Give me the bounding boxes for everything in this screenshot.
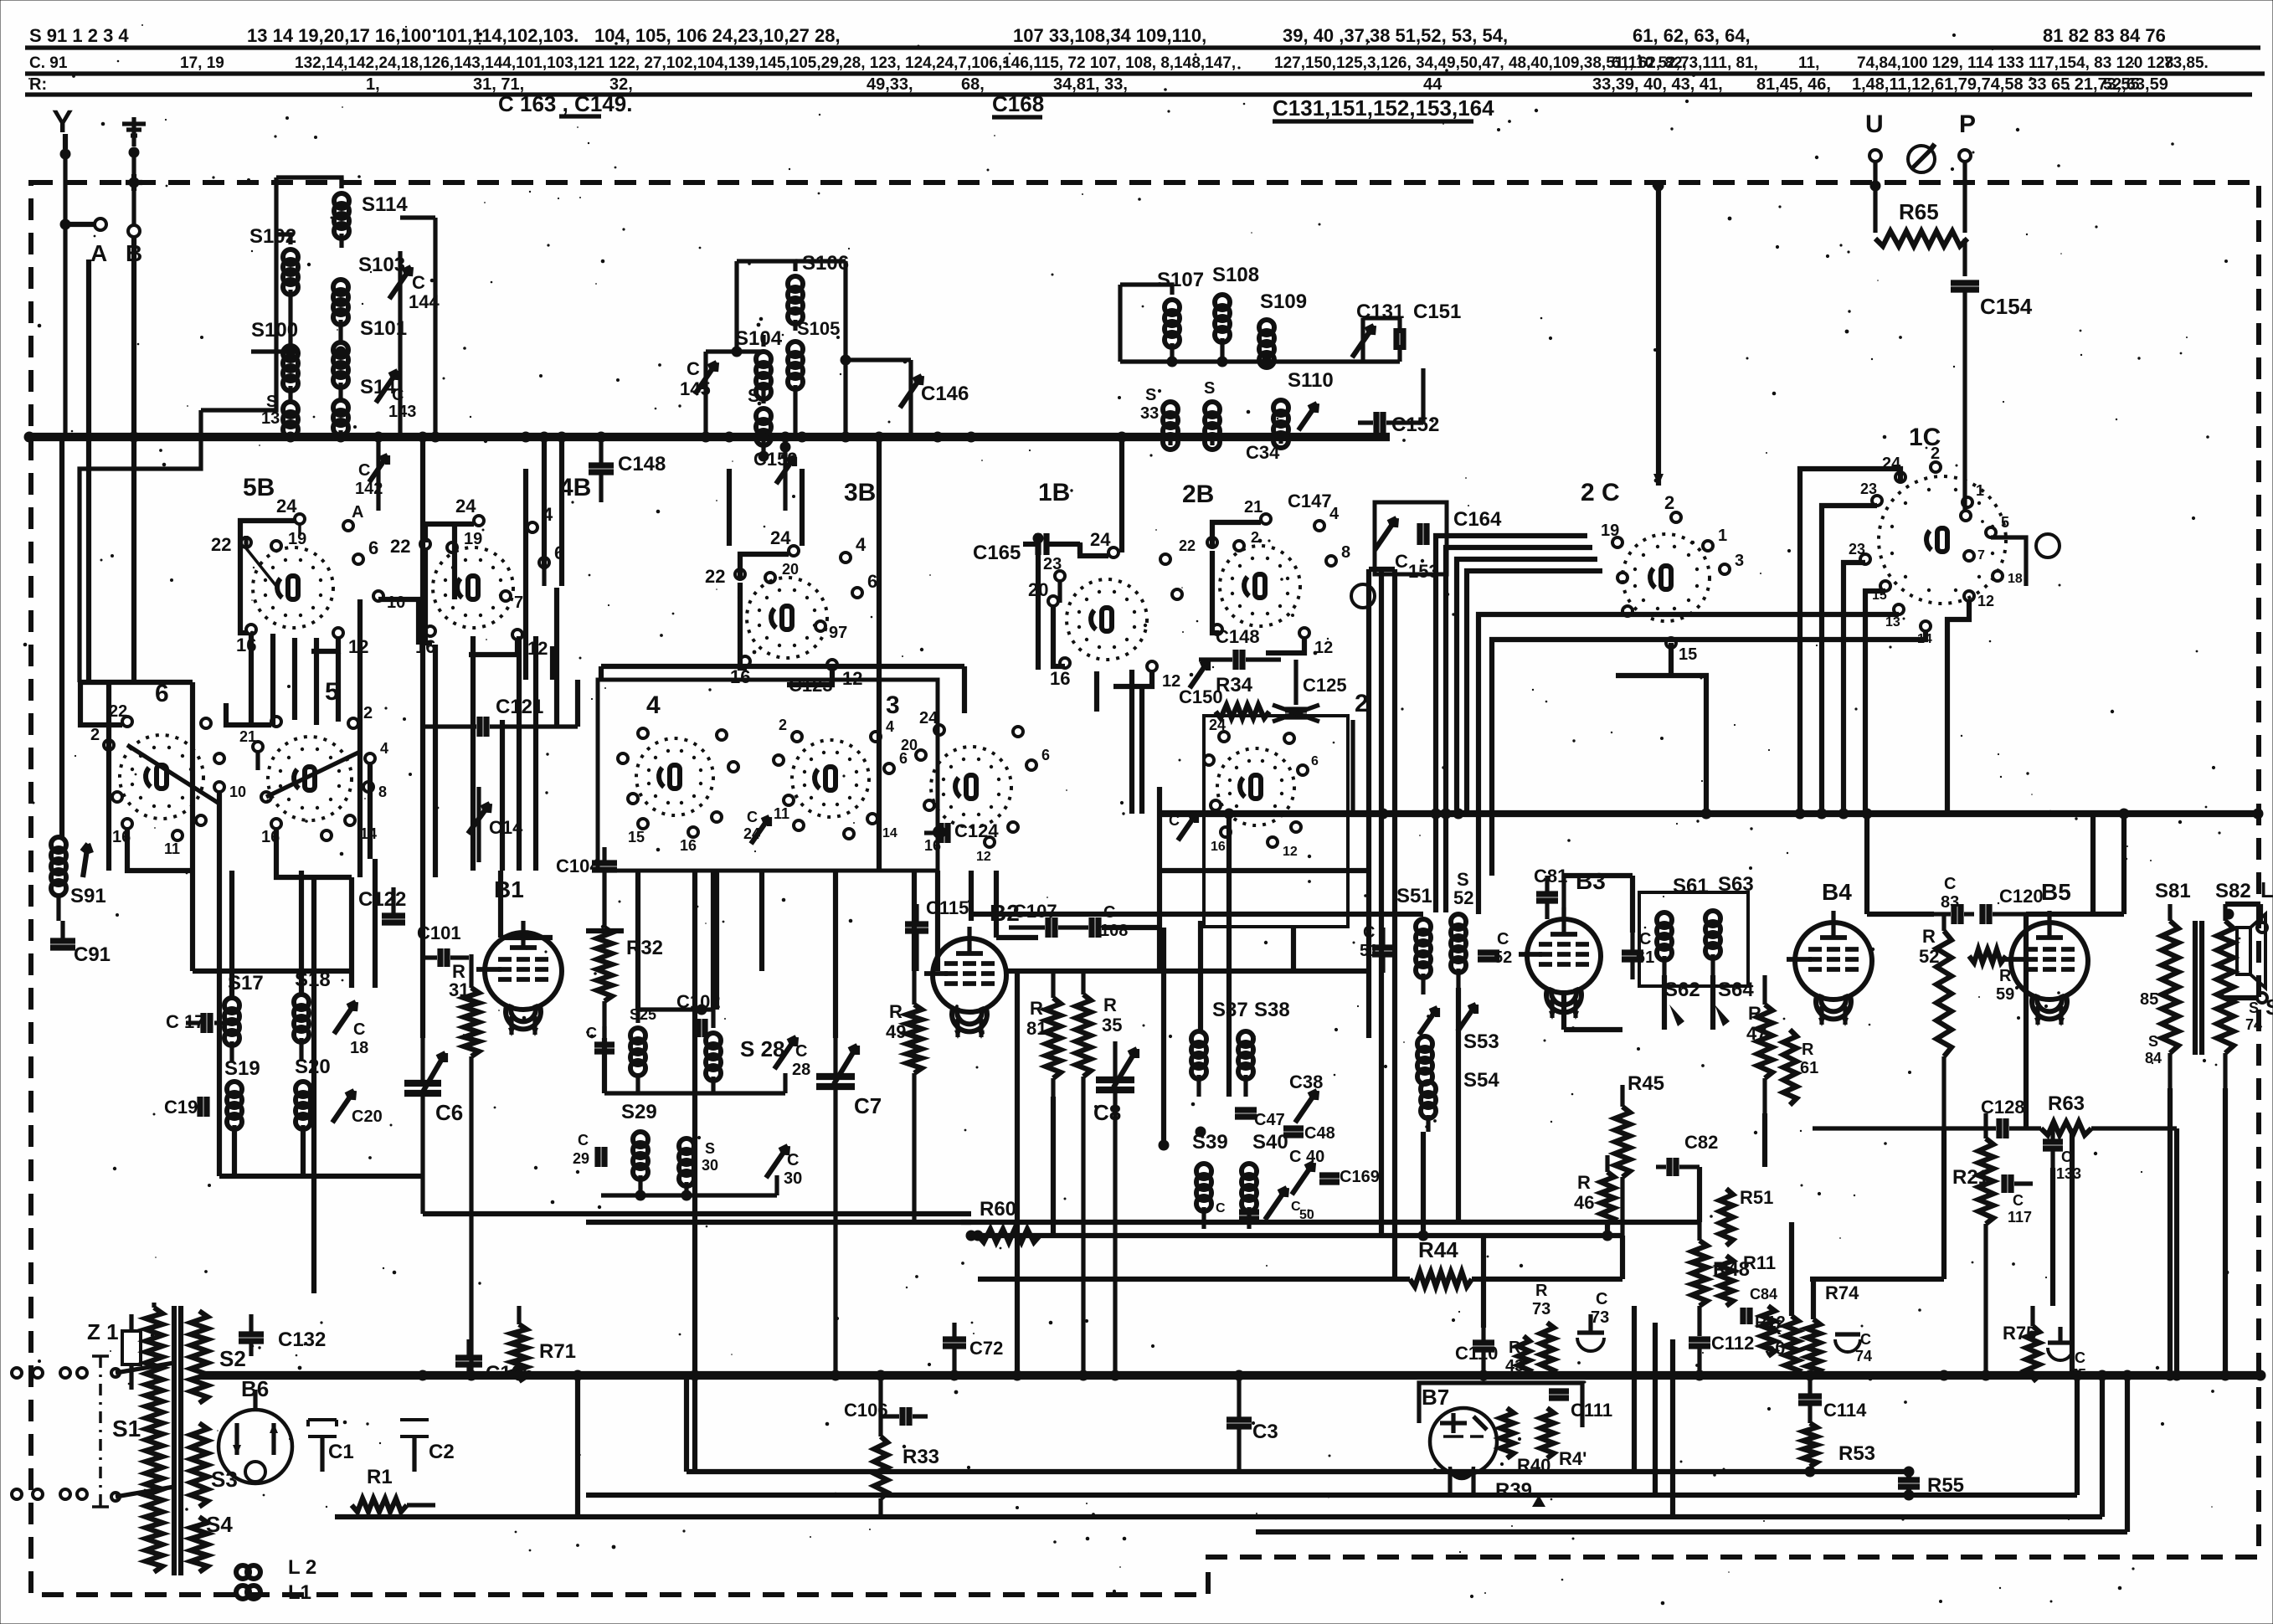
coil S39: [1192, 1131, 1228, 1229]
table rule 3: [25, 92, 2252, 96]
svg-text:R: R: [1577, 1172, 1591, 1193]
capacitor C3: [1226, 1375, 1278, 1472]
capacitor C75: [2048, 1327, 2086, 1383]
svg-text:22: 22: [109, 702, 127, 721]
svg-text:C: C: [1169, 812, 1180, 829]
resistor R45: [1615, 1072, 1664, 1236]
capacitor C49: [1216, 1201, 1259, 1219]
core arrow S62: [1669, 1005, 1684, 1026]
resistor R53: [1803, 1423, 1875, 1478]
bottom bus: [199, 1371, 2260, 1380]
capacitor C115: [905, 897, 969, 971]
svg-text:24: 24: [276, 496, 297, 516]
svg-text:R: R: [1535, 1282, 1548, 1300]
svg-text:61: 61: [1800, 1059, 1818, 1077]
svg-text:R51: R51: [1740, 1187, 1773, 1208]
right bus: [1160, 810, 2258, 817]
capacitor C133: [2043, 1122, 2081, 1182]
svg-text:24: 24: [919, 709, 939, 727]
svg-text:3: 3: [886, 691, 900, 719]
1 contacts: [901, 709, 1050, 864]
svg-text:2: 2: [1251, 529, 1259, 546]
capacitor C73: [1577, 1290, 1609, 1351]
svg-text:S1: S1: [112, 1416, 141, 1442]
svg-text:C165: C165: [973, 542, 1021, 564]
svg-text:P: P: [1959, 110, 1976, 138]
switch wafer 3B: [747, 479, 876, 658]
coil S40: [1242, 1131, 1288, 1229]
B7 shield box: [1419, 1383, 1582, 1427]
svg-text:C120: C120: [1999, 886, 2044, 907]
svg-text:C6: C6: [435, 1100, 463, 1125]
2B contacts: [1179, 498, 1350, 657]
coil S13: [261, 393, 298, 437]
transformer sec S2: [191, 1311, 246, 1403]
trimmer C143: [376, 371, 416, 421]
svg-text:S2: S2: [219, 1346, 246, 1371]
2B bracket: [1212, 522, 1304, 653]
label S74: [2245, 1000, 2262, 1033]
svg-text:33: 33: [1140, 404, 1159, 423]
svg-text:C169: C169: [1340, 1168, 1380, 1186]
svg-text:11,: 11,: [1798, 54, 1819, 72]
coil S61: [1657, 875, 1709, 975]
svg-text:21: 21: [239, 728, 256, 745]
svg-text:S: S: [1204, 379, 1215, 398]
svg-text:C47: C47: [1254, 1111, 1285, 1129]
capacitor C82: [1656, 1132, 1718, 1176]
svg-text:S81: S81: [2155, 880, 2191, 902]
switch wafer 4: [636, 691, 713, 815]
2 contacts: [1204, 717, 1319, 859]
resistor R48: [1692, 1222, 1750, 1336]
trimmer C144: [389, 251, 440, 437]
wires S28: [604, 1005, 785, 1094]
svg-text:C110: C110: [1455, 1343, 1498, 1364]
resistor R1: [352, 1466, 435, 1512]
svg-text:C132: C132: [278, 1328, 326, 1351]
svg-text:C7: C7: [854, 1093, 882, 1118]
switch wafer 4B: [433, 474, 591, 628]
1B bracket: [1053, 542, 1152, 686]
coil S26: [748, 385, 771, 445]
svg-text:16: 16: [680, 837, 697, 854]
svg-text:S19: S19: [224, 1057, 260, 1080]
resistor R35: [1076, 971, 1122, 1375]
trimmer S53 arrow: [1419, 1008, 1499, 1053]
svg-text:46: 46: [1574, 1192, 1594, 1213]
svg-text:22: 22: [1179, 537, 1196, 554]
svg-text:4: 4: [856, 534, 867, 555]
resistor R47: [1746, 975, 1772, 1113]
svg-text:39, 40 ,37,38 51,52, 53, 54,: 39, 40 ,37,38 51,52, 53, 54,: [1283, 25, 1508, 46]
svg-text:7: 7: [1977, 548, 1985, 563]
resistor R40: [1500, 1408, 1550, 1476]
1C spare hole: [2036, 534, 2060, 558]
capacitor C117: [2004, 1174, 2033, 1226]
svg-text:C122: C122: [358, 888, 406, 911]
svg-text:S114: S114: [362, 193, 408, 216]
svg-text:19: 19: [464, 530, 482, 548]
svg-text:28: 28: [792, 1061, 810, 1079]
label R39: [1495, 1479, 1545, 1507]
svg-text:23: 23: [1849, 541, 1865, 558]
coil S30: [679, 1138, 718, 1195]
svg-text:B5: B5: [2041, 879, 2071, 905]
svg-text:C: C: [578, 1132, 589, 1149]
svg-text:C154: C154: [1980, 294, 2033, 319]
resistor R51: [1720, 1187, 1773, 1246]
svg-text:R33: R33: [903, 1446, 939, 1468]
svg-text:C38: C38: [1289, 1072, 1323, 1092]
4 contacts: [618, 728, 738, 854]
4B contacts: [390, 496, 564, 659]
svg-text:20: 20: [901, 737, 918, 753]
coil S114: [276, 177, 408, 248]
svg-text:16: 16: [924, 837, 941, 854]
svg-text:1,: 1,: [366, 75, 380, 94]
svg-text:B4: B4: [1822, 879, 1852, 905]
valve B5: [2003, 879, 2088, 1026]
capacitor C110: [1455, 1328, 1498, 1375]
resistor R11: [1720, 1252, 1776, 1306]
resistor R46: [1574, 1155, 1614, 1224]
2C contacts: [1601, 492, 1744, 664]
svg-text:R: R: [889, 1001, 903, 1022]
svg-text:S 28: S 28: [740, 1036, 785, 1061]
svg-text:S: S: [2148, 1033, 2158, 1050]
svg-text:R53: R53: [1838, 1442, 1875, 1465]
svg-text:R32: R32: [626, 937, 663, 959]
coil S17: [224, 972, 264, 1061]
svg-text:C115: C115: [926, 897, 969, 918]
capacitor C153: [1395, 551, 1439, 582]
svg-text:C111: C111: [1571, 1400, 1612, 1421]
svg-text:L 2: L 2: [288, 1556, 316, 1579]
svg-text:6: 6: [1041, 747, 1050, 763]
switch wafer 2B: [1182, 481, 1300, 626]
svg-text:A: A: [352, 503, 363, 522]
resistor R74: [1807, 1282, 1859, 1375]
svg-text:15: 15: [628, 829, 645, 845]
coil S14: [333, 376, 396, 435]
capacitor C48: [1283, 1124, 1335, 1143]
label S64: [1718, 979, 1754, 1001]
transformer core: [174, 1306, 181, 1575]
svg-text:R71: R71: [539, 1340, 576, 1363]
capacitor C19: [164, 1097, 207, 1118]
trimmer C131: [1352, 301, 1404, 362]
svg-text:13 14 19,20,17 16,100 101,114,: 13 14 19,20,17 16,100 101,114,102,103.: [247, 25, 579, 46]
svg-text:R: R: [1103, 994, 1117, 1015]
svg-text:73,85.: 73,85.: [2164, 54, 2209, 72]
trimmer C24: [743, 809, 769, 844]
coil S28: [706, 1033, 785, 1081]
resistor R49: [886, 971, 922, 1222]
resistor R73: [1532, 1282, 1554, 1375]
switch wafer 5: [268, 678, 352, 820]
svg-text:C150: C150: [1179, 686, 1223, 707]
valve B6 rectifier: [219, 1376, 292, 1483]
capacitor C154: [1951, 283, 2033, 512]
3B contacts: [705, 527, 877, 689]
svg-text:52: 52: [1453, 887, 1473, 908]
svg-text:S64: S64: [1718, 979, 1754, 1001]
resistor R65: [1870, 181, 1968, 277]
label R34: [1216, 674, 1269, 718]
svg-text:23: 23: [1860, 481, 1877, 497]
6 rotor arm: [127, 745, 219, 804]
resistor R21: [1952, 1113, 1993, 1375]
coil S109: [1259, 290, 1307, 367]
svg-text:R45: R45: [1628, 1072, 1664, 1095]
svg-text:44: 44: [1423, 75, 1442, 94]
svg-text:3: 3: [1735, 552, 1744, 570]
svg-text:3B: 3B: [844, 479, 876, 506]
switch wafer 3: [792, 691, 900, 817]
capacitor C151: [1396, 301, 1461, 362]
svg-text:R: R: [1802, 1041, 1814, 1059]
trimmer C50: [1265, 1188, 1314, 1222]
coil S102: [249, 225, 298, 295]
svg-text:19: 19: [288, 530, 306, 548]
1C contacts: [1849, 445, 2023, 646]
svg-text:C131,151,152,153,164: C131,151,152,153,164: [1273, 95, 1494, 121]
svg-text:U: U: [1865, 110, 1884, 138]
svg-text:S 91 1 2 3 4: S 91 1 2 3 4: [29, 25, 129, 46]
svg-text:1: 1: [1718, 527, 1727, 545]
svg-text:C2: C2: [429, 1441, 455, 1463]
svg-text:C: C: [687, 358, 700, 379]
transformer primary S1: [112, 1303, 162, 1572]
lamp L2 L1: [236, 1556, 316, 1604]
note C163 C149: [498, 91, 632, 116]
svg-text:C: C: [1216, 1201, 1226, 1215]
svg-text:16: 16: [1050, 668, 1070, 689]
5B contacts: [211, 496, 405, 657]
label S62: [1664, 979, 1700, 1001]
svg-text:C: C: [2075, 1349, 2085, 1366]
svg-text:S109: S109: [1260, 290, 1307, 313]
trimmer C14: [468, 787, 523, 862]
coil S28a: [630, 1006, 656, 1076]
resistor R32: [597, 921, 663, 1038]
coil S33: [1140, 386, 1178, 450]
dial lamp symbol: [1908, 144, 1935, 172]
svg-text:8: 8: [378, 784, 387, 800]
coil S51: [1396, 885, 1432, 994]
svg-text:R74: R74: [1825, 1282, 1859, 1303]
capacitor C152: [1358, 368, 1439, 436]
svg-text:S105: S105: [797, 318, 840, 339]
terminal P: [1959, 110, 1976, 233]
trimmer C30: [766, 1146, 802, 1188]
svg-text:4: 4: [886, 718, 894, 735]
svg-text:C: C: [353, 1020, 365, 1039]
svg-text:14: 14: [882, 826, 897, 840]
svg-text:74,84,100 129, 114 133 117,154: 74,84,100 129, 114 133 117,154, 83 120 1…: [1857, 54, 2173, 72]
svg-text:133: 133: [2056, 1165, 2081, 1182]
svg-text:6: 6: [1311, 754, 1319, 768]
svg-text:10: 10: [387, 594, 405, 612]
svg-text:C19: C19: [164, 1097, 198, 1118]
trimmer C121b: [1298, 403, 1317, 430]
svg-text:13: 13: [1885, 615, 1900, 630]
svg-text:24: 24: [1209, 717, 1226, 733]
svg-text:6: 6: [368, 537, 378, 558]
capacitor C114: [1798, 1375, 1867, 1423]
svg-text:1,48,11,12,61,79,74,58 33 65 2: 1,48,11,12,61,79,74,58 33 65 21,73,55: [1852, 75, 2140, 94]
svg-text:81 82 83 84 76: 81 82 83 84 76: [2043, 25, 2166, 46]
switch S1 contacts: [111, 1363, 174, 1501]
svg-text:23: 23: [1043, 555, 1062, 573]
switch wafer 2: [1217, 690, 1369, 825]
transformer sec S4: [191, 1512, 233, 1572]
svg-text:S104: S104: [735, 327, 783, 350]
resistor R59: [1969, 949, 2014, 1004]
svg-text:S82: S82: [2215, 880, 2251, 902]
table row R values: [29, 75, 2168, 94]
coil S54: [1421, 1069, 1499, 1132]
svg-text:B7: B7: [1422, 1385, 1449, 1410]
capacitor C83: [1934, 875, 1974, 924]
svg-text:29: 29: [573, 1150, 589, 1167]
trimmer C126: [1169, 812, 1196, 840]
svg-text:143: 143: [388, 403, 416, 421]
valve B2: [924, 900, 1020, 1039]
svg-text:4: 4: [646, 691, 661, 719]
label 85: [2140, 990, 2158, 1009]
terminal L: [2257, 877, 2273, 933]
svg-text:97: 97: [829, 624, 847, 642]
resistor R50: [1765, 1316, 1798, 1375]
terminal A: [60, 218, 108, 266]
wire B3 group: [1561, 876, 1566, 917]
wire 2 to C125: [1296, 660, 1353, 814]
svg-text:C: C: [787, 1151, 799, 1169]
svg-text:35: 35: [1102, 1015, 1122, 1036]
terminal U: [1865, 110, 1884, 233]
capacitor C52: [1478, 930, 1512, 967]
svg-text:49,33,: 49,33,: [867, 75, 913, 94]
svg-text:84: 84: [2145, 1050, 2162, 1066]
resistor R81: [1026, 971, 1061, 1097]
5 contacts: [239, 704, 388, 846]
svg-text:C: C: [747, 809, 758, 825]
svg-text:2: 2: [1664, 492, 1674, 513]
resistor R52: [1919, 914, 1952, 1130]
5B stub wires: [246, 525, 300, 586]
1C feeders: [1478, 469, 2026, 914]
coil S29: [621, 1101, 657, 1195]
svg-text:C: C: [412, 272, 425, 293]
coil S91: [51, 837, 106, 921]
svg-text:C112: C112: [1711, 1333, 1754, 1354]
svg-text:2: 2: [90, 726, 100, 744]
svg-text:S110: S110: [1288, 369, 1334, 392]
coil S108: [1212, 264, 1259, 362]
svg-text:12: 12: [1977, 593, 1994, 609]
trimmer C150: [1179, 661, 1223, 707]
svg-text:7: 7: [514, 594, 523, 612]
resistor R55: [1898, 1467, 1964, 1501]
bus joint dots: [24, 432, 2266, 1381]
coil S52: [1451, 869, 1473, 988]
coil S103: [333, 254, 405, 325]
capacitor C104: [556, 847, 617, 921]
svg-text:S38: S38: [1254, 999, 1290, 1021]
svg-text:30: 30: [702, 1157, 718, 1174]
svg-text:R: R: [1922, 926, 1936, 947]
core arrow S64: [1715, 1005, 1730, 1026]
capacitor C27: [586, 1025, 615, 1051]
wires S29: [601, 1175, 777, 1201]
svg-text:15: 15: [1679, 645, 1697, 664]
svg-text:C 40: C 40: [1289, 1148, 1324, 1166]
capacitor C121: [423, 696, 578, 737]
capacitor C125: [1273, 675, 1347, 722]
svg-text:Z 1: Z 1: [87, 1319, 119, 1344]
svg-text:C151: C151: [1413, 301, 1461, 323]
svg-text:74: 74: [1855, 1348, 1872, 1364]
valve B4: [1787, 879, 1872, 1026]
transformer sec S3: [191, 1423, 238, 1507]
svg-text:11: 11: [774, 805, 789, 822]
svg-text:12: 12: [1283, 845, 1298, 859]
speaker: [2237, 914, 2265, 988]
svg-text:A: A: [90, 240, 107, 266]
table row C values: [29, 54, 2209, 72]
switch wafer 1C: [1879, 424, 2006, 604]
coil S105: [788, 318, 840, 389]
switch wafer 6: [120, 680, 203, 819]
svg-text:22: 22: [390, 536, 410, 557]
HT bus: [29, 433, 1390, 441]
mains switch linkage: [92, 1356, 109, 1507]
trimmer C38: [1289, 1072, 1323, 1123]
svg-text:R65: R65: [1899, 199, 1939, 224]
capacitor C120: [1982, 886, 2044, 924]
resistor R61: [1783, 1030, 1818, 1105]
capacitor C61: [1622, 930, 1654, 979]
svg-text:74: 74: [2245, 1016, 2262, 1033]
svg-text:S3: S3: [211, 1467, 238, 1492]
svg-text:61, 62, 82,: 61, 62, 82,: [1612, 54, 1687, 72]
capacitor C169: [1319, 1168, 1380, 1186]
capacitor C132: [239, 1314, 326, 1356]
resistor R12: [1755, 1306, 1786, 1356]
svg-text:C168: C168: [992, 91, 1044, 116]
wires coil cluster 1: [80, 177, 435, 682]
capacitor C51: [1360, 923, 1394, 973]
6 contacts: [90, 702, 246, 857]
1B contacts: [1028, 529, 1182, 691]
svg-text:S107: S107: [1157, 269, 1204, 291]
table row S values: [29, 25, 2166, 46]
label C123: [789, 675, 833, 696]
svg-text:22: 22: [705, 566, 725, 587]
svg-text:C: C: [1395, 551, 1408, 572]
svg-text:52,63,59: 52,63,59: [2103, 75, 2168, 94]
svg-text:24: 24: [770, 527, 791, 548]
svg-text:2: 2: [363, 704, 373, 722]
4B bracket: [425, 524, 544, 655]
terminal B: [126, 174, 142, 437]
svg-text:C 163 , C149.: C 163 , C149.: [498, 91, 632, 116]
svg-text:R63: R63: [2048, 1092, 2085, 1115]
terminal S: [2257, 993, 2273, 1020]
mains terminals: [12, 1368, 87, 1499]
